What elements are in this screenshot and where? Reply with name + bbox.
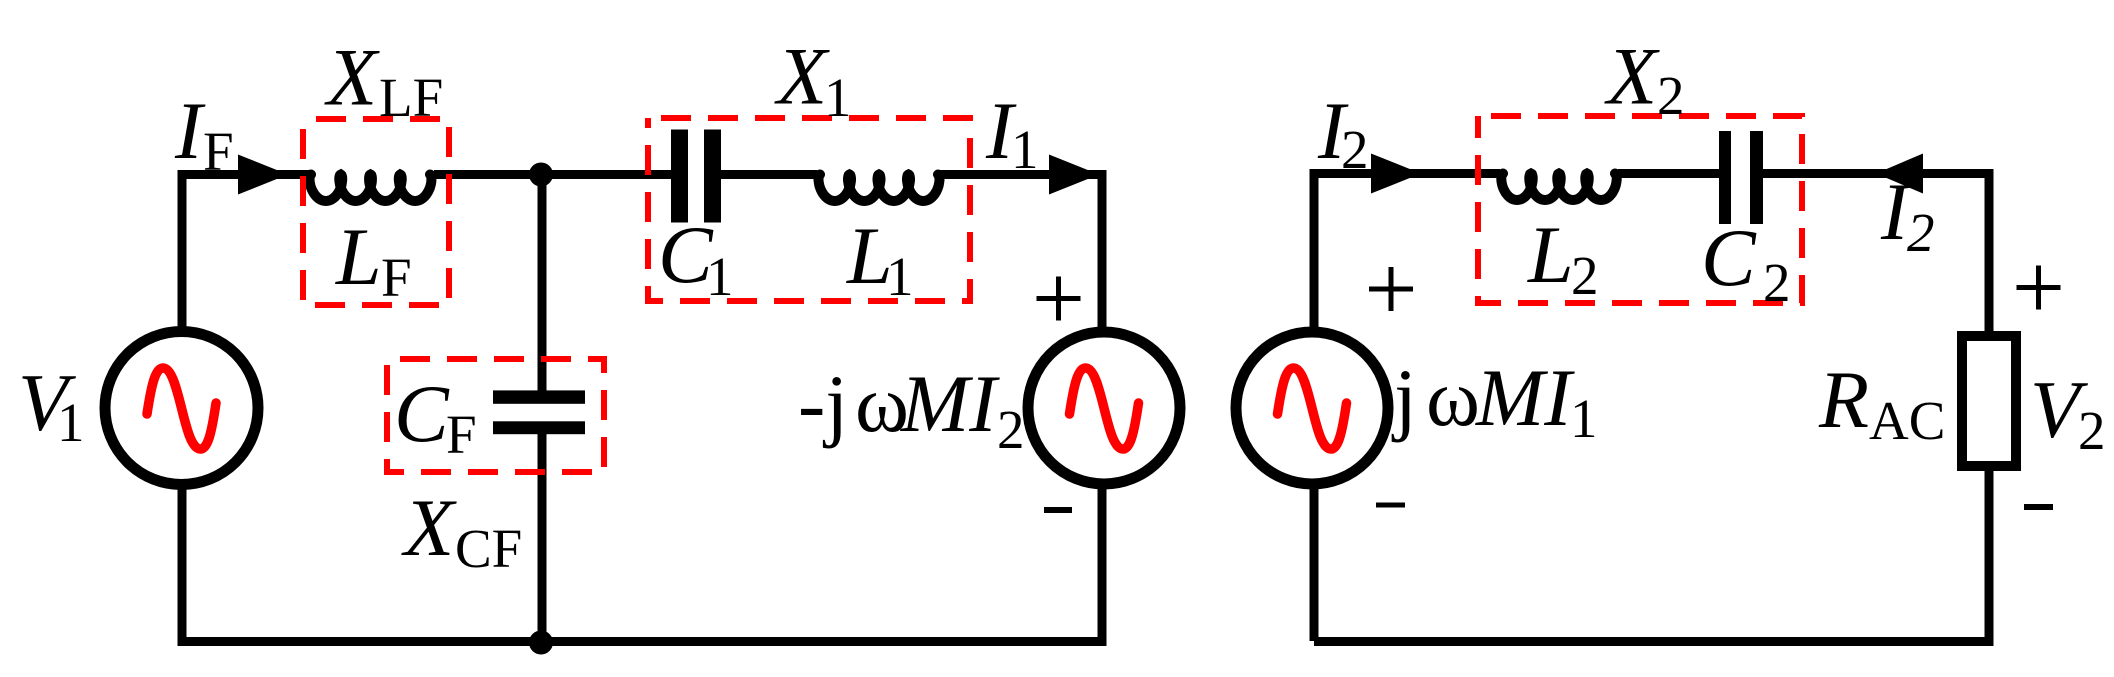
arrow IF — [238, 155, 288, 195]
svg-text:2: 2 — [1657, 65, 1685, 126]
svg-text:1: 1 — [824, 67, 852, 128]
svg-text:X: X — [1604, 31, 1660, 122]
svg-text:X: X — [401, 482, 457, 573]
wire: top horizontal from C1 right plate to L1 coil — [721, 170, 817, 179]
svg-text:L: L — [335, 211, 382, 302]
wire: top horizontal from C2 right plate to right corner — [1763, 174, 1994, 335]
minus sign at V2 — [2024, 504, 2053, 510]
svg-text:j: j — [1391, 352, 1417, 443]
wire: left circuit top horizontal from V1 to LF — [178, 170, 310, 179]
svg-text:1: 1 — [706, 246, 734, 307]
svg-text:L: L — [1527, 209, 1574, 300]
source -jwMI2 sine — [1070, 368, 1139, 449]
svg-text:C: C — [1701, 212, 1757, 303]
wire: top horizontal from L1 coil to corner above -jwMI2 source — [940, 170, 1103, 332]
wire: top horizontal from LF coil to C1 left plate — [434, 170, 671, 179]
svg-text:2: 2 — [2078, 400, 2106, 461]
svg-text:1: 1 — [886, 246, 914, 307]
source V1 sine — [147, 368, 216, 449]
arrow I2 (right circuit, pointing right) — [1371, 154, 1421, 194]
arrow I1 — [1049, 155, 1099, 195]
svg-text:I: I — [174, 85, 206, 176]
svg-text:R: R — [1818, 354, 1869, 445]
minus sign at -jwMI2 — [1044, 507, 1072, 513]
svg-text:LF: LF — [379, 67, 443, 128]
dashed box X_LF — [303, 119, 449, 305]
svg-text:MI: MI — [900, 358, 1000, 449]
inductor L2 coil — [1501, 174, 1616, 201]
svg-text:2: 2 — [997, 399, 1025, 460]
svg-text:1: 1 — [57, 392, 85, 453]
wire: top horizontal from L2 coil to C2 left plate — [1618, 169, 1719, 178]
plus sign at V2 — [2017, 266, 2061, 310]
arrow I2 (into load, pointing left) — [1876, 154, 1923, 194]
minus sign at jwMI1 — [1376, 503, 1405, 508]
svg-text:-j: -j — [798, 358, 848, 449]
wire: jwMI1 top lead — [1310, 169, 1319, 331]
dashed box X_1 — [648, 118, 970, 301]
plus sign at -jwMI2 — [1037, 277, 1081, 321]
wire: -jwMI2 source bottom lead — [1098, 486, 1107, 646]
resistor R_AC body — [1962, 336, 2016, 466]
wire: left circuit bottom horizontal — [178, 637, 1107, 646]
svg-text:2: 2 — [1907, 202, 1935, 263]
source -jwMI2 circle — [1028, 332, 1180, 484]
wire: jwMI1 bottom lead — [1310, 485, 1319, 641]
svg-text:1: 1 — [1570, 388, 1598, 449]
plus sign at jwMI1 — [1369, 267, 1413, 311]
svg-text:F: F — [203, 121, 234, 182]
capacitor C1 plates — [671, 130, 688, 223]
capacitor CF plates — [493, 390, 585, 403]
inductor LF coil — [310, 175, 432, 202]
svg-text:2: 2 — [1571, 245, 1599, 306]
wire: CF branch top segment — [538, 175, 547, 393]
source jwMI1 circle — [1236, 332, 1388, 484]
svg-text:1: 1 — [1011, 119, 1039, 180]
svg-text:MI: MI — [1475, 352, 1575, 443]
source jwMI1 sine — [1278, 368, 1347, 449]
dashed box X_2 — [1478, 116, 1802, 303]
dashed box X_CF — [387, 359, 604, 472]
capacitor C2 plates — [1719, 131, 1731, 224]
svg-text:CF: CF — [455, 518, 522, 579]
source V1 circle — [105, 332, 258, 485]
wire: resistor bottom lead — [1985, 469, 1994, 646]
wire: right circuit top horizontal from jwMI1 to L2 — [1314, 169, 1500, 178]
wire: V1 bottom lead — [178, 486, 187, 641]
svg-text:C: C — [394, 368, 450, 459]
svg-text:X: X — [774, 31, 830, 122]
svg-text:2: 2 — [1341, 119, 1369, 180]
wire: left circuit top-left vertical (V1 top lead) — [178, 170, 187, 332]
node: junction dot on top wire — [529, 163, 553, 187]
svg-text:X: X — [324, 32, 380, 123]
node: junction dot on bottom wire — [529, 631, 553, 655]
wire: CF branch bottom segment — [538, 433, 547, 641]
wire: right circuit bottom horizontal — [1314, 637, 1994, 646]
inductor L1 coil — [819, 175, 940, 202]
svg-text:F: F — [381, 247, 412, 308]
svg-text:ω: ω — [1426, 352, 1480, 443]
svg-text:AC: AC — [1869, 390, 1945, 451]
svg-text:F: F — [446, 404, 477, 465]
svg-text:2: 2 — [1763, 252, 1791, 313]
